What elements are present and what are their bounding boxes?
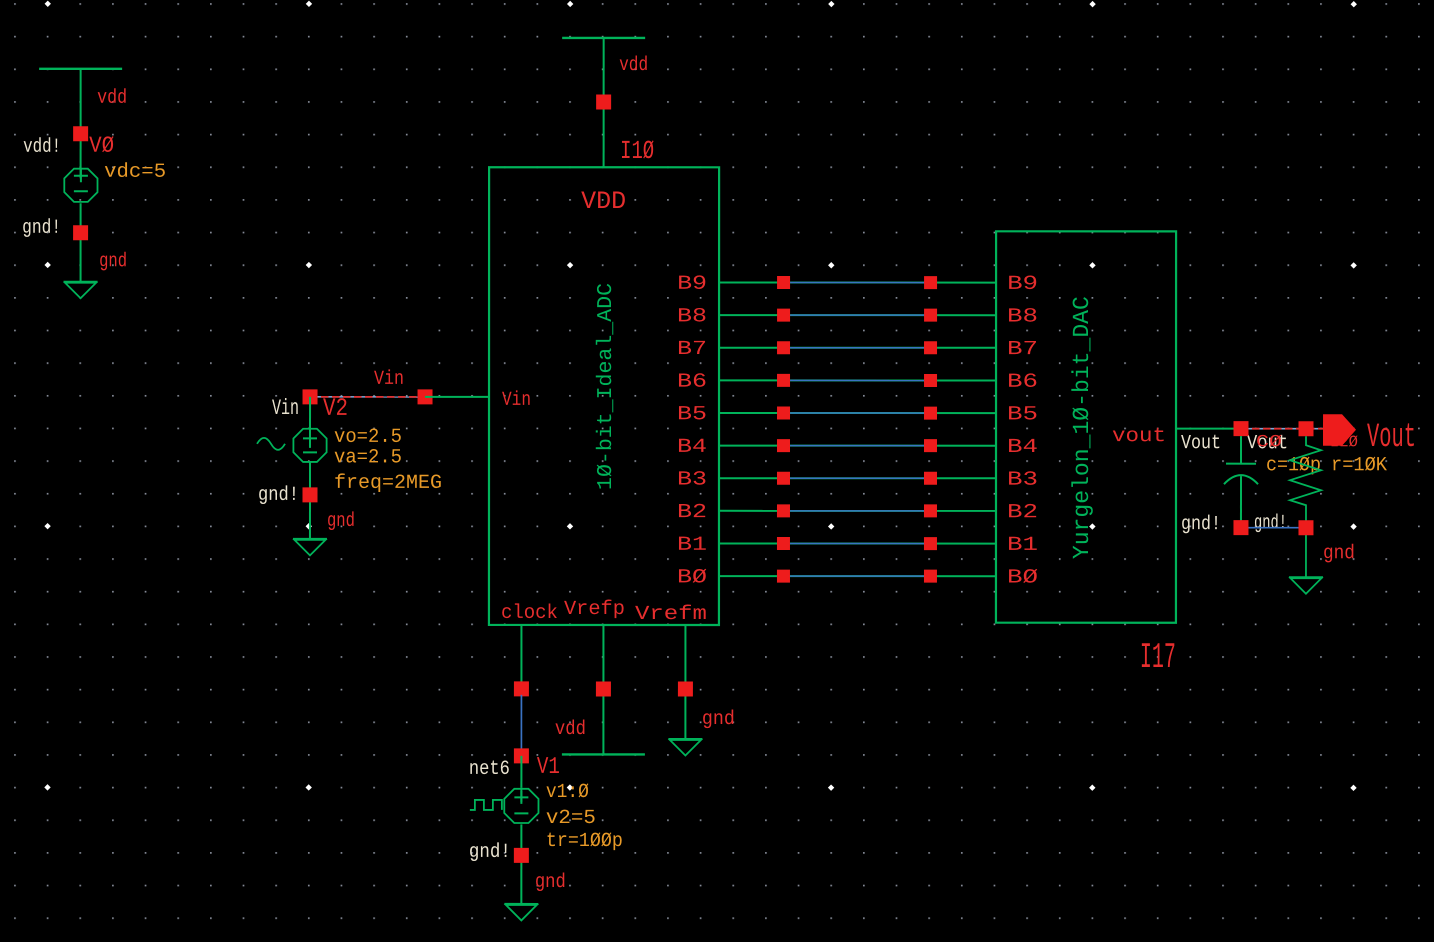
- svg-text:B2: B2: [677, 501, 707, 524]
- svg-text:CØ: CØ: [1256, 433, 1282, 452]
- svg-text:gnd!: gnd!: [22, 217, 61, 240]
- pin square B5 DAC side: [924, 407, 937, 420]
- DAC block I17 outline: [996, 231, 1176, 622]
- svg-text:B5: B5: [677, 403, 707, 426]
- wire B4 bus green: [719, 445, 996, 447]
- wire B1 bus blue segment: [783, 543, 931, 545]
- pin square B4 ADC side: [777, 439, 790, 452]
- pin name B2 of DAC: [1007, 501, 1038, 524]
- wire B2 bus blue segment: [783, 510, 931, 512]
- svg-text:B7: B7: [1007, 338, 1038, 361]
- instance label under port: [1330, 433, 1358, 451]
- wire clock stub: [520, 625, 522, 691]
- svg-text:B8: B8: [677, 305, 707, 328]
- svg-text:B1: B1: [677, 534, 707, 557]
- instance label C0: [1256, 433, 1282, 452]
- cell name Yurgelon_10-bit_DAC: [1069, 296, 1095, 559]
- net label Vin white: [272, 396, 299, 421]
- svg-text:vdc=5: vdc=5: [104, 161, 166, 184]
- pin name B3 of ADC: [677, 468, 707, 491]
- wire B6 bus blue segment: [783, 379, 931, 381]
- pin square B9 ADC side: [777, 276, 790, 289]
- wire V2 minus stem: [309, 462, 311, 539]
- wire B5 bus blue segment: [783, 412, 931, 414]
- wire B3 bus blue segment: [783, 477, 931, 479]
- pin square B5 ADC side: [777, 407, 790, 420]
- svg-text:gnd!: gnd!: [258, 484, 299, 507]
- svg-text:I1Ø: I1Ø: [620, 136, 654, 166]
- wire vout green: [1176, 428, 1241, 430]
- svg-text:VDD: VDD: [581, 187, 626, 216]
- net label vdd!: [23, 136, 61, 159]
- svg-text:VØ: VØ: [89, 133, 114, 159]
- pin square B8 DAC side: [924, 309, 937, 322]
- wire bottom blue segment: [1241, 527, 1306, 529]
- ground symbol below V2: [293, 539, 327, 556]
- wire B3 bus green: [719, 477, 996, 479]
- svg-text:BØ: BØ: [1007, 567, 1038, 590]
- svg-text:Vout: Vout: [1181, 432, 1221, 455]
- instance label I10: [620, 136, 654, 166]
- pin square net6: [514, 748, 529, 763]
- ground symbol below V0: [64, 282, 98, 299]
- pin square V1 minus: [514, 848, 529, 863]
- net label net6: [469, 758, 510, 781]
- net label Vout white: [1181, 432, 1221, 455]
- net label gnd! of V1: [469, 841, 511, 864]
- port label Vout: [1367, 419, 1416, 457]
- wire BØ bus green: [719, 575, 996, 577]
- net label gnd!: [22, 217, 61, 240]
- pin square V0 plus: [73, 126, 88, 141]
- pin name B9 of DAC: [1007, 273, 1038, 296]
- svg-text:B4: B4: [1007, 436, 1038, 459]
- wire B2 bus green: [719, 510, 996, 512]
- pin square B6 DAC side: [924, 374, 937, 387]
- value label v2=5: [546, 807, 596, 830]
- net label Vout white 2: [1247, 432, 1288, 455]
- pin square V2 minus: [302, 487, 317, 502]
- svg-text:clock: clock: [501, 602, 558, 625]
- pin name Vrefm: [635, 603, 707, 626]
- value label tr=100p: [546, 830, 623, 853]
- svg-text:freq=2MEG: freq=2MEG: [334, 472, 442, 495]
- sine wave glyph of V2: [257, 438, 285, 450]
- pin name VDD: [581, 187, 626, 216]
- wire B9 bus green: [719, 282, 996, 284]
- pin name B6 of ADC: [677, 371, 707, 394]
- value label freq=2MEG: [334, 472, 442, 495]
- instance label V0: [89, 133, 114, 159]
- wire Vin red dashed overlay: [310, 396, 425, 398]
- wire B7 bus blue segment: [783, 347, 931, 349]
- pin name B1 of ADC: [677, 534, 707, 557]
- svg-text:gnd: gnd: [99, 250, 127, 273]
- net label gnd! of V2: [258, 484, 299, 507]
- cell name 10-bit_Ideal_ADC: [595, 283, 618, 490]
- pin name Vrefp: [564, 598, 625, 621]
- svg-text:gnd: gnd: [702, 708, 735, 731]
- pin square capacitor top: [1234, 421, 1249, 436]
- pin name Vin: [502, 389, 531, 412]
- pin square B2 ADC side: [777, 504, 790, 517]
- pin name B9 of ADC: [677, 273, 707, 296]
- net label gnd output: [1323, 542, 1355, 565]
- pin square resistor bottom: [1298, 520, 1313, 535]
- svg-text:BØ: BØ: [677, 566, 707, 589]
- wire B8 bus green: [719, 314, 996, 316]
- wire B7 bus green: [719, 347, 996, 349]
- pin name B4 of DAC: [1007, 436, 1038, 459]
- pin name B7 of DAC: [1007, 338, 1038, 361]
- svg-text:B6: B6: [1007, 371, 1038, 394]
- wire Vin blue segment: [310, 396, 425, 398]
- pin square B3 DAC side: [924, 472, 937, 485]
- wire Vrefm stub to gnd: [684, 625, 686, 739]
- pin square B2 DAC side: [924, 504, 937, 517]
- ADC block I10 outline: [489, 167, 719, 625]
- svg-text:v1:Ø: v1:Ø: [546, 781, 589, 804]
- net label gnd of V1: [535, 871, 566, 894]
- svg-text:Vrefp: Vrefp: [564, 598, 625, 621]
- svg-text:Vrefm: Vrefm: [635, 603, 707, 626]
- vdd rail symbol above ADC: [562, 37, 645, 39]
- net label vdd above ADC: [619, 54, 648, 77]
- svg-text:1Ø-bit_Ideal_ADC: 1Ø-bit_Ideal_ADC: [595, 283, 618, 490]
- instance label V1: [537, 754, 560, 781]
- pin square B6 ADC side: [777, 374, 790, 387]
- pin square BØ DAC side: [924, 570, 937, 583]
- net label vdd: [97, 87, 127, 110]
- svg-text:gnd!: gnd!: [1181, 513, 1221, 536]
- value label r=10K: [1331, 454, 1387, 477]
- pin square resistor top: [1299, 421, 1314, 436]
- svg-text:gnd!: gnd!: [1254, 512, 1287, 535]
- pin name B6 of DAC: [1007, 371, 1038, 394]
- pin square capacitor bottom: [1233, 520, 1248, 535]
- pin name B5 of DAC: [1007, 403, 1038, 426]
- svg-text:gnd!: gnd!: [469, 841, 511, 864]
- pin name BØ of DAC: [1007, 567, 1038, 590]
- net label Vin: [374, 368, 404, 391]
- net label gnd! cap: [1181, 513, 1221, 536]
- resistor R0: [1290, 436, 1321, 577]
- pin name B4 of ADC: [677, 436, 707, 459]
- pin square BØ ADC side: [777, 570, 790, 583]
- pin name clock: [501, 602, 558, 625]
- pin name B8 of ADC: [677, 305, 707, 328]
- pin name B2 of ADC: [677, 501, 707, 524]
- pin name B8 of DAC: [1007, 306, 1038, 329]
- svg-text:net6: net6: [469, 758, 510, 781]
- wire B6 bus green: [719, 379, 996, 381]
- net label gnd of V2: [327, 510, 355, 533]
- value label vdc=5: [104, 161, 166, 184]
- instance label I17: [1140, 637, 1176, 678]
- svg-text:B9: B9: [677, 273, 707, 296]
- svg-text:B5: B5: [1007, 403, 1038, 426]
- svg-text:tr=1ØØp: tr=1ØØp: [546, 830, 623, 853]
- svg-text:I17: I17: [1140, 637, 1176, 678]
- pin name B3 of DAC: [1007, 469, 1038, 492]
- pin square V2 plus: [303, 389, 318, 404]
- wire vdd rail to V0 plus: [80, 69, 82, 178]
- svg-text:vout: vout: [1112, 425, 1166, 448]
- wire B1 bus green: [719, 543, 996, 545]
- wire V2 plus stem: [309, 397, 311, 448]
- vdd rail symbol of V0: [39, 68, 122, 70]
- wire clock blue segment: [520, 695, 522, 757]
- svg-text:vdd: vdd: [555, 718, 586, 741]
- svg-text:B2: B2: [1007, 501, 1038, 524]
- pin name B1 of DAC: [1007, 534, 1038, 557]
- ground symbol below V1: [504, 904, 538, 921]
- svg-text:vdd: vdd: [619, 54, 648, 77]
- svg-text:B3: B3: [1007, 469, 1038, 492]
- value label va=2.5: [334, 446, 402, 469]
- ground symbol output: [1289, 577, 1323, 594]
- wire V1 plus stem: [520, 787, 522, 802]
- pin square B9 DAC side: [924, 276, 937, 289]
- wire vout red dashed overlay: [1241, 428, 1324, 430]
- pin square Vrefp: [596, 681, 611, 696]
- voltage source V2: [293, 429, 326, 462]
- net label vdd near Vrefp: [555, 718, 586, 741]
- output port Vout arrow: [1323, 414, 1356, 446]
- pin name B5 of ADC: [677, 403, 707, 426]
- svg-text:Yurgelon_1Ø-bit_DAC: Yurgelon_1Ø-bit_DAC: [1069, 296, 1095, 559]
- svg-text:gnd: gnd: [327, 510, 355, 533]
- svg-text:B3: B3: [677, 468, 707, 491]
- vdd rail symbol below Vrefp: [562, 753, 645, 755]
- value label vo=2.5: [334, 426, 402, 449]
- wire net6 to V1 plus: [520, 756, 522, 788]
- svg-text:Vin: Vin: [374, 368, 404, 391]
- pin square B7 DAC side: [924, 341, 937, 354]
- wire vdd rail to ADC VDD pin: [603, 38, 605, 167]
- wire node square near ADC: [418, 389, 433, 404]
- svg-text:B4: B4: [677, 436, 707, 459]
- capacitor C0: [1224, 436, 1258, 527]
- value label c=10p: [1266, 454, 1321, 477]
- pin square B4 DAC side: [924, 439, 937, 452]
- svg-text:vdd!: vdd!: [23, 136, 61, 159]
- wire V1 minus stem: [520, 824, 522, 903]
- instance label V2: [323, 394, 348, 423]
- svg-text:vdd: vdd: [97, 87, 127, 110]
- pin square B8 ADC side: [777, 309, 790, 322]
- net label gnd: [99, 250, 127, 273]
- pin square B1 ADC side: [777, 537, 790, 550]
- svg-text:B9: B9: [1007, 273, 1038, 296]
- wire B8 bus blue segment: [783, 314, 931, 316]
- value label v1:0: [546, 781, 589, 804]
- wire Vin to ADC: [425, 396, 489, 398]
- pin square clock: [514, 681, 529, 696]
- svg-text:r=1ØK: r=1ØK: [1331, 454, 1387, 477]
- wire V0 minus to gnd: [80, 203, 82, 282]
- wire BØ bus blue segment: [783, 575, 931, 577]
- pin name B7 of ADC: [677, 338, 707, 361]
- wire B4 bus blue segment: [783, 445, 931, 447]
- net label gnd near Vrefm: [702, 708, 735, 731]
- pin name BØ of ADC: [677, 566, 707, 589]
- pin square B1 DAC side: [924, 537, 937, 550]
- svg-text:gnd: gnd: [535, 871, 566, 894]
- svg-text:Vin: Vin: [502, 389, 531, 412]
- wire Vrefp stub to vdd: [602, 625, 604, 755]
- pin square ADC VDD: [596, 94, 611, 109]
- svg-text:va=2.5: va=2.5: [334, 446, 402, 469]
- ground symbol below Vrefm: [668, 739, 702, 756]
- pin square V0 minus: [73, 225, 88, 240]
- svg-text:B1: B1: [1007, 534, 1038, 557]
- svg-text:gnd: gnd: [1323, 542, 1355, 565]
- wire B9 bus blue segment: [783, 282, 931, 284]
- svg-text:v2=5: v2=5: [546, 807, 596, 830]
- voltage source V1: [504, 789, 538, 823]
- wire B5 bus green: [719, 412, 996, 414]
- pin square B3 ADC side: [777, 472, 790, 485]
- wire vout blue segment: [1241, 428, 1324, 430]
- voltage source V0: [64, 169, 97, 202]
- pin name vout: [1112, 425, 1166, 448]
- pulse wave glyph of V1: [470, 800, 502, 810]
- svg-text:V2: V2: [323, 394, 348, 423]
- pin square Vrefm: [678, 681, 693, 696]
- svg-text:Vout: Vout: [1367, 419, 1416, 457]
- net label gnd! res: [1254, 512, 1287, 535]
- svg-text:B8: B8: [1007, 306, 1038, 329]
- svg-text:B6: B6: [677, 371, 707, 394]
- major grid dots: [44, 1, 1357, 791]
- svg-text:Vin: Vin: [272, 396, 299, 421]
- svg-text:V1: V1: [537, 754, 560, 781]
- pin square B7 ADC side: [777, 341, 790, 354]
- svg-text:B7: B7: [677, 338, 707, 361]
